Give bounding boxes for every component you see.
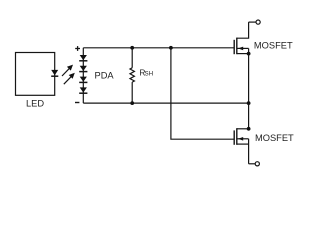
node + (PDA anode) bbox=[75, 46, 80, 51]
node - (PDA cathode) bbox=[75, 102, 79, 104]
MOSFET Q1 body lead with arrow bbox=[237, 47, 249, 51]
photodiode PDA segment 4 bbox=[79, 87, 87, 93]
wire gate branch (top rail down to bottom MOSFET gate) bbox=[171, 48, 234, 139]
MOSFET Q2 gate bar bbox=[233, 130, 235, 144]
junction dot RSH bottom bbox=[130, 101, 134, 105]
LED light emission arrow (lower) bbox=[64, 73, 75, 84]
junction dot gate branch bbox=[169, 46, 173, 50]
MOSFET Q2 source lead bbox=[237, 143, 249, 145]
LED diode D1 bbox=[51, 70, 58, 76]
svg-text:MOSFET: MOSFET bbox=[255, 133, 294, 143]
photodiode PDA segment 2 bbox=[79, 66, 87, 72]
svg-text:PDA: PDA bbox=[95, 70, 115, 80]
LED light emission arrow (upper) bbox=[62, 65, 73, 76]
junction dot Q1 source bbox=[247, 52, 251, 56]
svg-text:MOSFET: MOSFET bbox=[254, 40, 293, 50]
terminal circle bottom bbox=[255, 162, 259, 166]
wire bottom rail (PDA- to right bus) bbox=[83, 102, 248, 104]
junction dot Q2 drain bbox=[247, 127, 251, 131]
wire PDA vertical branch bbox=[82, 48, 84, 103]
terminal circle top bbox=[256, 20, 260, 24]
MOSFET Q2 channel bar bbox=[236, 128, 238, 145]
MOSFET Q1 gate bar bbox=[233, 40, 235, 54]
photodiode PDA segment 3 bbox=[79, 77, 87, 83]
wire Q2 body-source tie and source down bbox=[248, 139, 250, 164]
junction dot bottom rail to bus bbox=[247, 101, 251, 105]
MOSFET Q2 drain lead bbox=[237, 128, 249, 130]
wire top rail (PDA+ to top MOSFET gate) bbox=[83, 47, 234, 49]
MOSFET Q1 drain lead bbox=[237, 22, 249, 38]
MOSFET Q1 channel bar bbox=[236, 38, 238, 55]
label RSH bbox=[139, 67, 153, 77]
terminal stub bottom bbox=[249, 163, 255, 165]
junction dot RSH top bbox=[130, 46, 134, 50]
MOSFET Q2 body lead with arrow bbox=[237, 137, 249, 141]
photodiode PDA segment 1 bbox=[79, 55, 87, 61]
svg-text:SH: SH bbox=[145, 70, 154, 77]
resistor RSH bbox=[130, 48, 134, 103]
LED package box bbox=[16, 53, 55, 96]
svg-text:LED: LED bbox=[26, 98, 44, 108]
terminal stub top bbox=[249, 21, 256, 23]
wire right bus (Q1 source to Q2 drain) bbox=[248, 48, 250, 128]
MOSFET Q1 source lead bbox=[237, 53, 249, 55]
